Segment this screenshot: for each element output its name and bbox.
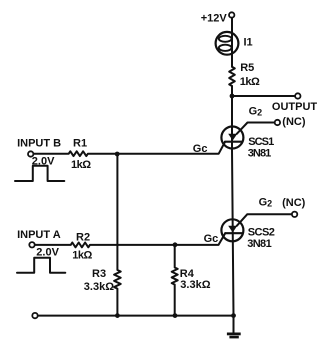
svg-text:2.0V: 2.0V (32, 155, 55, 167)
svg-text:Gc: Gc (204, 233, 219, 245)
svg-text:INPUT B: INPUT B (17, 138, 61, 150)
svg-text:R4: R4 (180, 268, 195, 280)
svg-text:3.3kΩ: 3.3kΩ (180, 279, 210, 291)
svg-text:SCS2: SCS2 (248, 226, 275, 238)
svg-text:OUTPUT: OUTPUT (272, 101, 318, 113)
svg-text:R2: R2 (76, 231, 90, 243)
svg-text:3N81: 3N81 (247, 238, 271, 250)
svg-text:(NC): (NC) (282, 197, 306, 209)
svg-text:+12V: +12V (201, 13, 228, 25)
svg-text:R1: R1 (73, 138, 87, 150)
svg-text:3N81: 3N81 (248, 147, 271, 159)
svg-text:SCS1: SCS1 (248, 136, 274, 148)
svg-text:INPUT A: INPUT A (17, 229, 61, 241)
svg-text:1kΩ: 1kΩ (240, 76, 260, 88)
svg-text:2.0V: 2.0V (36, 246, 59, 258)
svg-text:I1: I1 (244, 37, 253, 49)
svg-text:1kΩ: 1kΩ (71, 159, 91, 171)
svg-text:G2: G2 (259, 197, 273, 209)
svg-text:R3: R3 (92, 268, 106, 280)
svg-text:3.3kΩ: 3.3kΩ (84, 281, 114, 293)
svg-text:1kΩ: 1kΩ (72, 250, 92, 262)
svg-text:Gc: Gc (193, 143, 208, 155)
svg-text:G2: G2 (249, 106, 263, 118)
svg-text:(NC): (NC) (282, 116, 306, 128)
svg-text:R5: R5 (240, 62, 254, 74)
